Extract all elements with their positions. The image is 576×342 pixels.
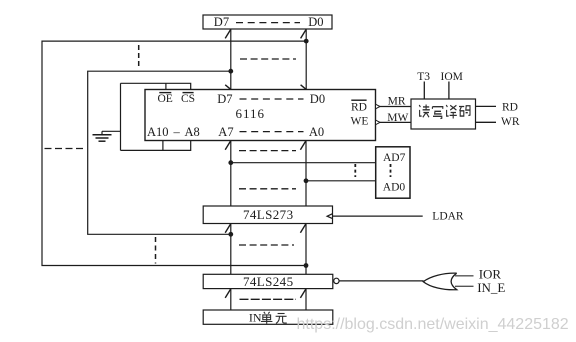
node junction lower left bus	[228, 232, 233, 237]
RAM 6116	[145, 90, 376, 141]
wire lower-right bus vertical (245 to 273)	[300, 224, 306, 275]
svg-text:AD0: AD0	[383, 182, 406, 194]
svg-text:AD7: AD7	[383, 152, 406, 164]
wire to ground	[102, 130, 121, 132]
wire IOR input stub	[455, 275, 474, 277]
wire AD0 line to address buffer	[306, 180, 376, 182]
svg-text:A8: A8	[185, 125, 200, 139]
address buffer AD7-AD0	[376, 147, 410, 198]
dashed ellipsis between D bus lines	[240, 58, 296, 60]
svg-text:WR: WR	[501, 116, 520, 128]
svg-text:MW: MW	[387, 112, 408, 124]
wire T3 input	[423, 82, 425, 100]
dashed ellipsis horizontal between left feedback wires	[45, 148, 84, 150]
svg-text:https://blog.csdn.net/weixin_4: https://blog.csdn.net/weixin_44225182	[297, 316, 569, 333]
IN unit box (IN单元)	[203, 310, 333, 325]
buffer 74LS245	[203, 274, 333, 289]
glyph 元	[276, 314, 287, 324]
wire IN unit left vertical (IN to 245)	[225, 289, 231, 310]
svg-text:D7: D7	[217, 92, 232, 106]
node junction lower right bus	[304, 263, 309, 268]
svg-text:T3: T3	[417, 71, 430, 83]
wire lower-left bus vertical (245 to 273)	[225, 224, 231, 275]
wire RD output	[476, 105, 497, 107]
svg-text:–: –	[173, 125, 181, 139]
enable bubble on 74LS245	[334, 278, 339, 283]
svg-text:D0: D0	[310, 92, 325, 106]
wire D0 bus vertical (top box to 6116)	[301, 29, 307, 90]
dashed ellipsis vertical between lower feedback wires	[155, 237, 157, 264]
svg-text:A10: A10	[147, 125, 169, 139]
wire MW (WE output of 6116 to decoder)	[376, 120, 412, 125]
svg-text:OE: OE	[158, 93, 173, 105]
wire inner feedback loop (D7 to lower left bus)	[88, 71, 231, 234]
svg-text:IN_E: IN_E	[477, 280, 505, 295]
wire WR output	[476, 121, 497, 123]
wire MR (RD output of 6116 to decoder)	[376, 104, 412, 109]
dashed ellipsis between A bus lines (upper)	[239, 150, 296, 152]
dashed ellipsis vertical between feedback wires (top)	[138, 45, 140, 66]
data bus register box D7-D0 (top)	[203, 15, 332, 29]
svg-text:RD: RD	[502, 101, 518, 113]
latch 74LS273	[203, 206, 332, 224]
svg-text:CS: CS	[181, 93, 195, 105]
node junction on left A line	[228, 160, 233, 165]
wire outer feedback loop (D0 to lower right bus)	[42, 41, 306, 265]
wire A-bus right vertical (273 to 6116)	[300, 141, 306, 207]
dashed ellipsis between IN bus lines	[240, 298, 297, 300]
wire LDAR control with arrowhead	[327, 214, 423, 219]
svg-text:WE: WE	[351, 115, 369, 127]
OR gate (mirrored, inputs right)	[423, 273, 456, 290]
glyph 写	[432, 107, 442, 119]
node junction on D7 line	[228, 69, 233, 74]
node junction on D0 line	[304, 39, 309, 44]
svg-text:A7: A7	[218, 125, 233, 139]
svg-text:D0: D0	[308, 15, 323, 29]
dashed ellipsis between A bus lines (lower)	[239, 188, 296, 190]
wire AD7 line to address buffer	[231, 162, 376, 164]
node junction on right A line	[304, 178, 309, 183]
glyph 读	[419, 105, 430, 118]
svg-text:LDAR: LDAR	[432, 211, 464, 223]
svg-text:IOM: IOM	[441, 71, 463, 83]
wire enable to OR gate	[339, 280, 423, 282]
ground	[93, 131, 112, 141]
svg-text:MR: MR	[388, 96, 406, 108]
glyph 单	[261, 312, 272, 324]
dashed ellipsis between lower bus lines	[239, 244, 294, 246]
svg-text:74LS273: 74LS273	[243, 207, 293, 222]
svg-text:RD: RD	[351, 102, 367, 114]
svg-text:A0: A0	[309, 125, 324, 139]
dashed ellipsis between AD lines	[354, 164, 356, 177]
wire IOM input	[448, 82, 450, 100]
glyph 译	[446, 105, 457, 118]
glyph 码	[459, 106, 470, 116]
svg-text:D7: D7	[214, 15, 229, 29]
wire D7 bus vertical (top box to 6116)	[225, 29, 231, 90]
wire IN_E input stub	[455, 285, 474, 287]
svg-text:6116: 6116	[236, 106, 266, 121]
decoder 读写译码 (read/write decode)	[411, 99, 476, 129]
svg-text:IN: IN	[249, 311, 262, 325]
wire OE/CS select bracket	[121, 83, 191, 150]
wire IN unit right vertical (IN to 245)	[300, 289, 306, 310]
wire A-bus left vertical (273 to 6116)	[225, 141, 231, 207]
svg-text:74LS245: 74LS245	[243, 274, 293, 289]
